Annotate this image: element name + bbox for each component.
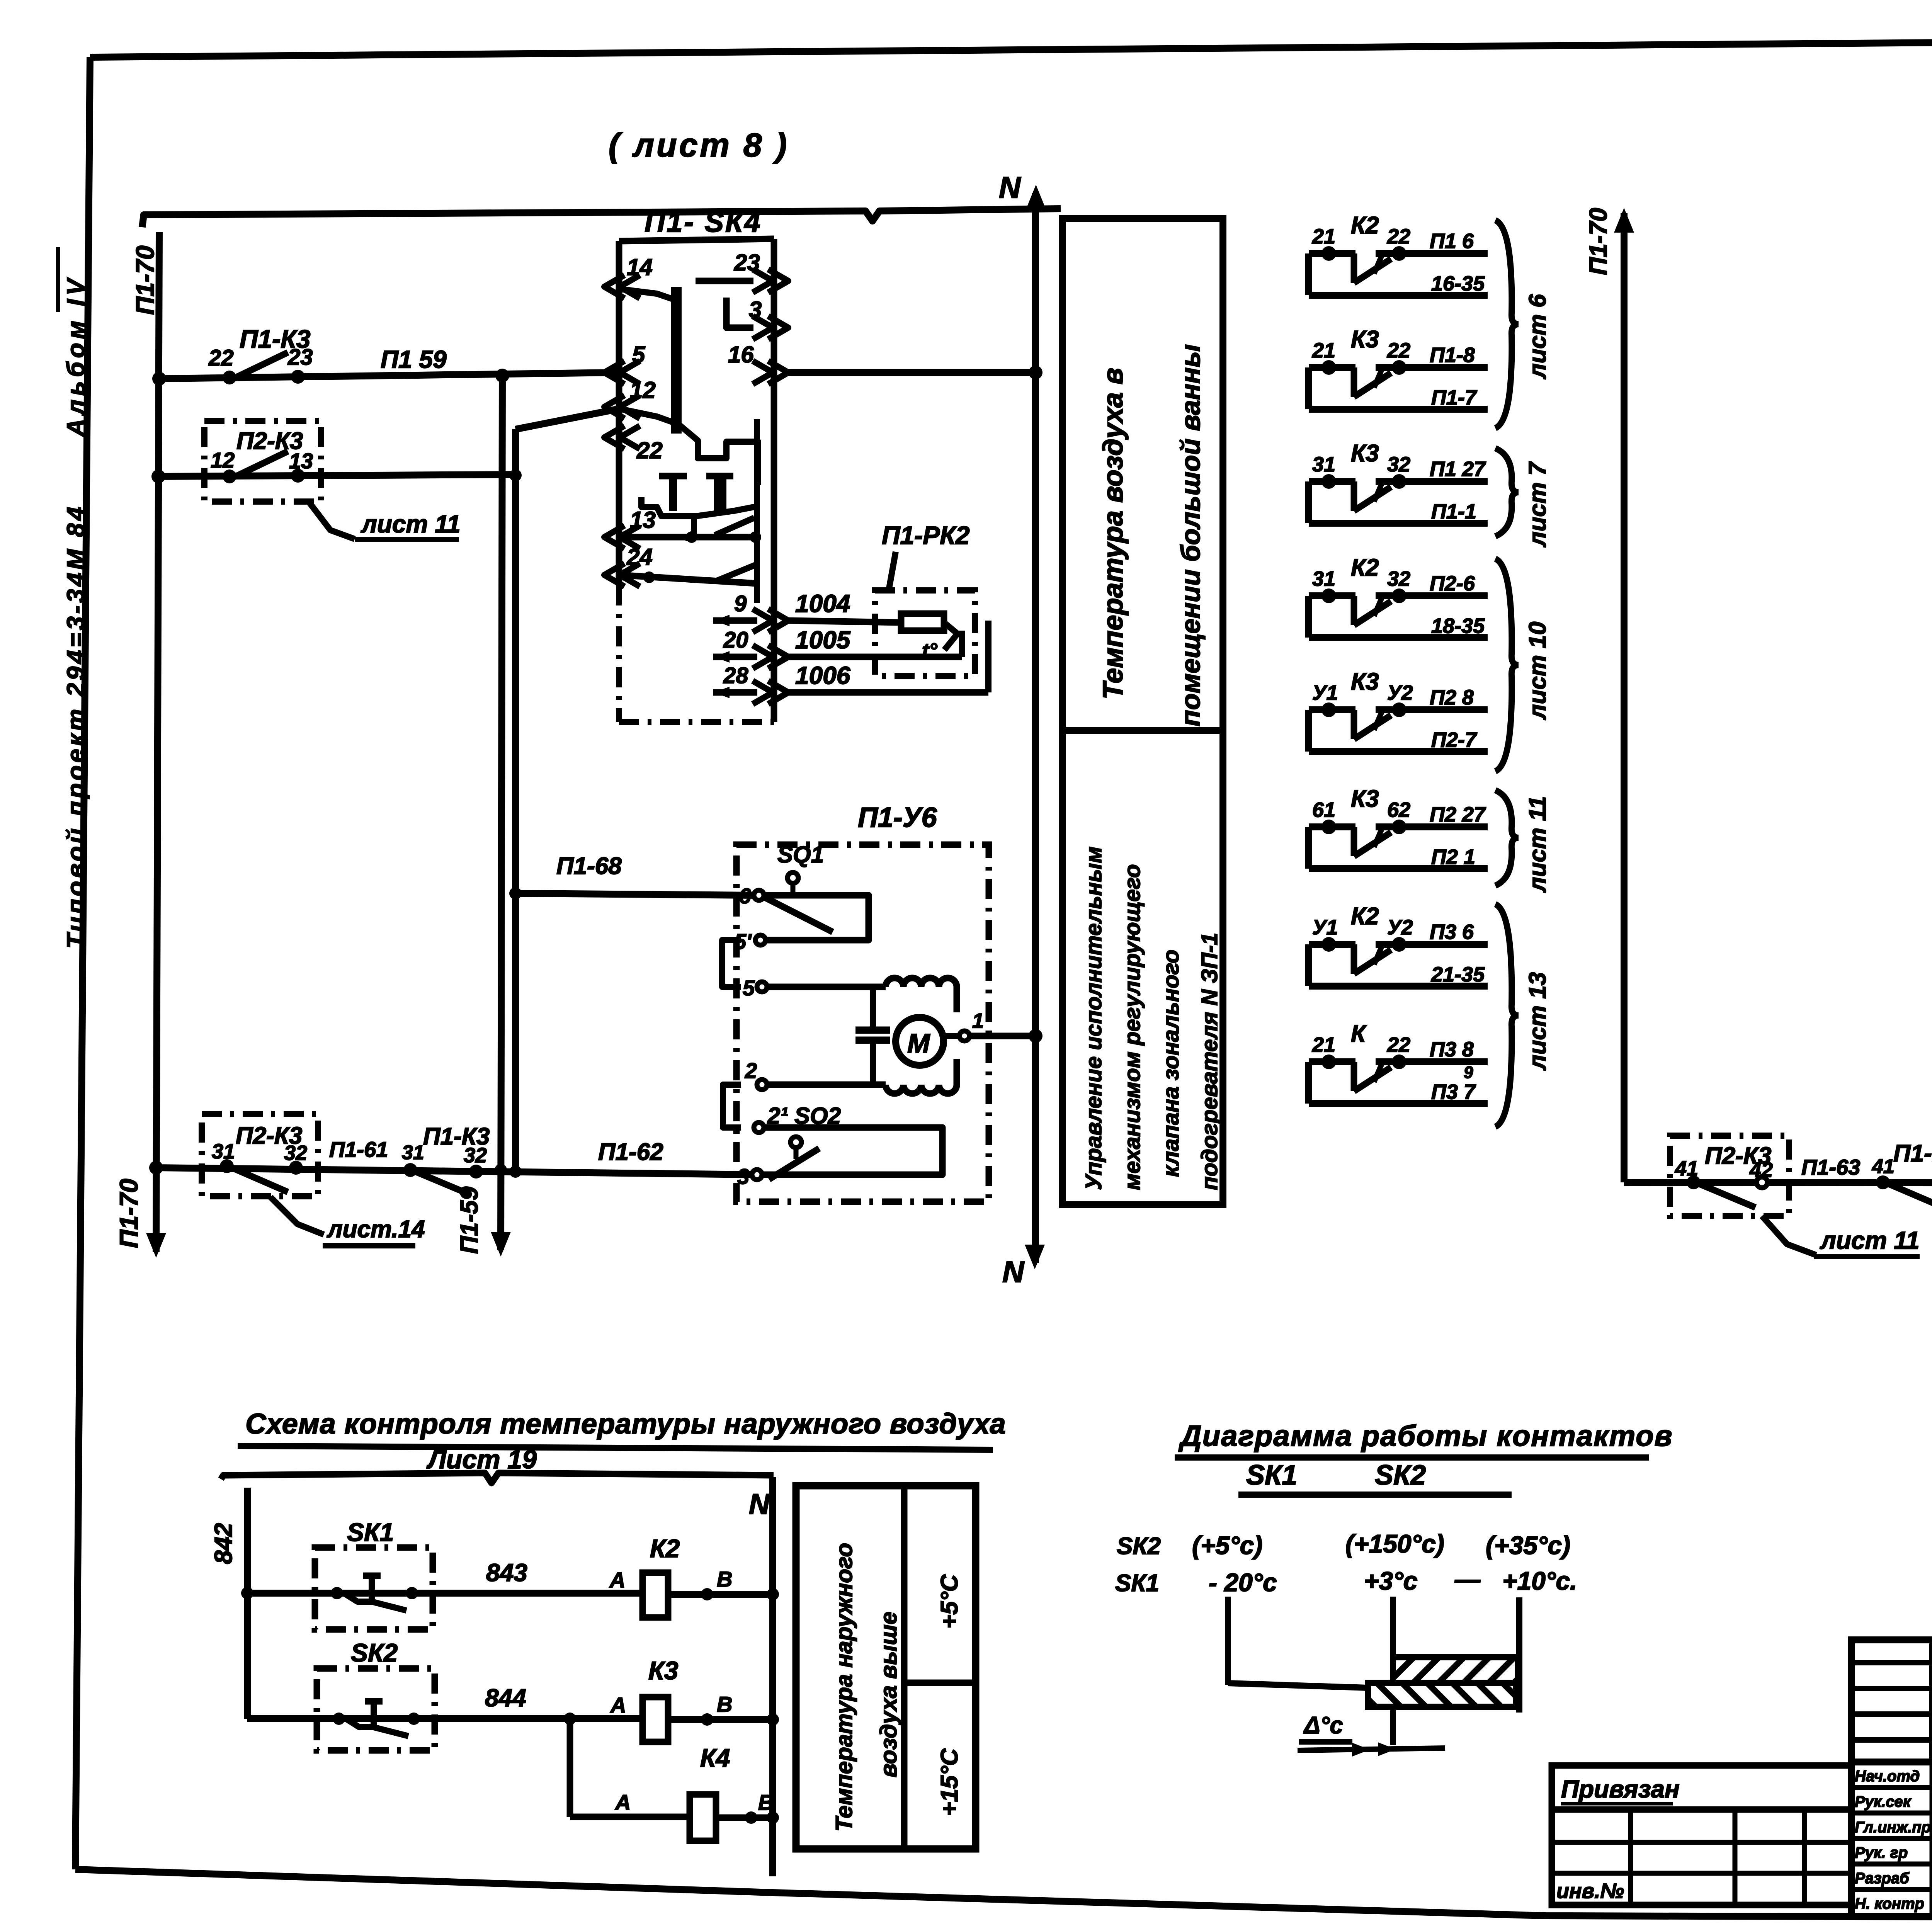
svg-text:К2: К2 xyxy=(650,1534,680,1563)
svg-text:П1-62: П1-62 xyxy=(598,1139,663,1165)
svg-text:SК1: SК1 xyxy=(1246,1460,1297,1491)
svg-text:32: 32 xyxy=(284,1141,307,1165)
auxiliary contact К (21-22) net П3 8/П3 7 xyxy=(1309,1058,1355,1065)
sheet bracket лист 7 xyxy=(1495,448,1519,536)
svg-text:П1-68: П1-68 xyxy=(556,853,622,879)
title block outline bottom xyxy=(1552,1902,1852,1908)
svg-text:К3: К3 xyxy=(1351,440,1379,467)
title block: lower-left grid xyxy=(1552,1810,1852,1905)
svg-text:П1-70: П1-70 xyxy=(114,1179,143,1248)
svg-text:21-35: 21-35 xyxy=(1431,963,1485,986)
svg-text:22: 22 xyxy=(1387,339,1410,362)
svg-text:В: В xyxy=(717,1567,732,1591)
svg-text:Схема контроля температуры нар: Схема контроля температуры наружного воз… xyxy=(245,1408,1006,1440)
svg-text:41: 41 xyxy=(1675,1157,1698,1180)
wire bottom row П1-63 / П1-65 xyxy=(1624,1182,1932,1183)
svg-text:П1-70: П1-70 xyxy=(1584,208,1612,275)
rail 842 xyxy=(244,1488,251,1719)
note лист 11 (right) leader xyxy=(1762,1216,1816,1255)
svg-text:помещении большой ванны: помещении большой ванны xyxy=(1175,344,1206,726)
svg-text:П1 6: П1 6 xyxy=(1430,230,1474,253)
svg-text:П1-РК2: П1-РК2 xyxy=(882,521,970,549)
svg-text:1005: 1005 xyxy=(795,626,851,654)
pin 3 xyxy=(768,316,788,339)
svg-text:22: 22 xyxy=(636,437,663,463)
capacitor xyxy=(870,987,876,1027)
terminal 2 wire xyxy=(757,1080,767,1090)
SQ1 bypass loop xyxy=(764,895,869,940)
svg-text:У1: У1 xyxy=(1312,916,1338,939)
junction on П1-70 xyxy=(152,372,166,386)
SQ2 bypass loop xyxy=(762,1128,942,1175)
svg-text:t°: t° xyxy=(922,639,937,662)
svg-text:31: 31 xyxy=(1312,567,1335,590)
svg-text:П1 59: П1 59 xyxy=(381,345,447,373)
svg-text:SК2: SК2 xyxy=(1117,1533,1161,1560)
condition box: Температура наружного воздуха выше xyxy=(796,1486,976,1849)
svg-text:П2 27: П2 27 xyxy=(1430,803,1486,826)
svg-text:20: 20 xyxy=(723,628,748,653)
border frame left xyxy=(75,57,90,1869)
svg-text:П1-7: П1-7 xyxy=(1431,386,1478,409)
title block: Привязан box xyxy=(1552,1765,1852,1810)
plug pin 28 / net 1006 xyxy=(713,689,757,696)
svg-text:21: 21 xyxy=(1312,225,1335,248)
svg-text:22: 22 xyxy=(1387,1033,1410,1056)
svg-text:+10°с.: +10°с. xyxy=(1502,1566,1577,1595)
motor M xyxy=(896,1017,944,1065)
svg-text:62: 62 xyxy=(1387,798,1410,821)
branch SК1 / К2 (843) xyxy=(247,1590,643,1597)
svg-text:2: 2 xyxy=(745,1058,757,1083)
svg-text:12: 12 xyxy=(211,448,235,472)
svg-text:842: 842 xyxy=(209,1523,237,1564)
svg-text:31: 31 xyxy=(212,1140,235,1163)
svg-text:Δ°с: Δ°с xyxy=(1303,1712,1343,1739)
svg-text:1006: 1006 xyxy=(795,662,850,689)
svg-text:П1-61: П1-61 xyxy=(329,1137,388,1162)
plug pin 20 / net 1005 xyxy=(713,654,757,660)
branch SК2 / К3 (844) xyxy=(247,1715,643,1722)
pin 23 wire xyxy=(696,278,753,284)
sheet bracket лист 10 xyxy=(1495,559,1519,771)
svg-text:22: 22 xyxy=(208,345,234,371)
svg-text:А: А xyxy=(614,1790,631,1815)
svg-text:П2 8: П2 8 xyxy=(1430,686,1474,709)
svg-text:У1: У1 xyxy=(1312,681,1338,704)
note лист 14 leader xyxy=(270,1197,324,1235)
title block: signature rows xyxy=(1852,1762,1932,1917)
pin 5 xyxy=(604,361,624,384)
svg-text:Температура воздуха в: Температура воздуха в xyxy=(1098,368,1129,699)
svg-text:Рук. гр: Рук. гр xyxy=(1855,1844,1908,1861)
svg-text:12: 12 xyxy=(630,377,656,403)
svg-text:лист 11: лист 11 xyxy=(361,510,461,538)
auxiliary contact К2 (21-22) net П1 6/16-35 xyxy=(1309,250,1355,257)
svg-text:Альбом IV: Альбом IV xyxy=(62,275,90,437)
svg-text:1: 1 xyxy=(972,1009,984,1032)
pin 24 xyxy=(604,563,624,587)
terminal bracket 2-21 xyxy=(723,1085,741,1128)
resistor П1-РК2 enclosure xyxy=(875,590,975,676)
svg-text:К2: К2 xyxy=(1351,212,1379,239)
auxiliary contact К3 (У1-У2) net П2 8/П2-7 xyxy=(1309,706,1355,713)
svg-text:32: 32 xyxy=(1387,453,1410,476)
auxiliary contact К3 (61-62) net П2 27/П2 1 xyxy=(1309,823,1355,830)
svg-text:SК1: SК1 xyxy=(1115,1570,1159,1597)
svg-text:П1-8: П1-8 xyxy=(1430,344,1475,367)
svg-text:лист.14: лист.14 xyxy=(327,1216,425,1243)
wire row П2-К3 (лист 11) xyxy=(158,474,515,476)
net 1006 wire xyxy=(788,689,988,696)
border frame bottom xyxy=(75,1869,1932,1922)
svg-text:Температура наружного: Температура наружного xyxy=(831,1543,857,1832)
svg-text:SК2: SК2 xyxy=(351,1638,398,1667)
svg-text:14: 14 xyxy=(627,254,653,280)
continuation bracket (лист 8) top line xyxy=(142,209,1061,227)
svg-text:У2: У2 xyxy=(1387,681,1413,704)
svg-text:42: 42 xyxy=(1749,1158,1773,1182)
terminal 1 of motor xyxy=(944,1033,960,1039)
note box: Управление исполнительным механизмом ЗП-1 xyxy=(1063,730,1223,1205)
svg-text:П2-7: П2-7 xyxy=(1431,728,1478,752)
pin 12 xyxy=(604,395,624,418)
svg-text:31: 31 xyxy=(1312,453,1335,476)
svg-text:К2: К2 xyxy=(1351,903,1379,930)
wire П1-68 xyxy=(509,887,522,900)
svg-text:П3 6: П3 6 xyxy=(1430,920,1474,944)
svg-text:лист 6: лист 6 xyxy=(1524,294,1551,379)
svg-text:К3: К3 xyxy=(648,1656,678,1685)
svg-text:К3: К3 xyxy=(1351,326,1379,353)
svg-text:лист 7: лист 7 xyxy=(1524,461,1551,548)
svg-text:5: 5 xyxy=(632,342,646,367)
SК4 internal bridge xyxy=(671,287,677,434)
svg-text:3: 3 xyxy=(737,1164,749,1189)
contact П1-К3 (22-23) xyxy=(223,371,236,384)
svg-text:22: 22 xyxy=(1387,225,1410,248)
svg-text:18-35: 18-35 xyxy=(1431,614,1485,638)
border frame top xyxy=(90,37,1932,57)
auxiliary contact К2 (У1-У2) net П3 6/21-35 xyxy=(1309,941,1355,948)
svg-text:6: 6 xyxy=(739,884,751,908)
rail П1-70 (left) xyxy=(156,232,159,1252)
svg-text:13: 13 xyxy=(289,449,313,473)
pin 13 xyxy=(604,526,624,549)
svg-text:П2-6: П2-6 xyxy=(1430,572,1475,595)
svg-text:+3°с: +3°с xyxy=(1364,1566,1417,1595)
svg-text:механизмом регулирующего: механизмом регулирующего xyxy=(1120,864,1145,1190)
svg-text:А: А xyxy=(609,1568,625,1592)
net 1005 wire xyxy=(788,654,962,660)
svg-text:16-35: 16-35 xyxy=(1431,272,1485,295)
svg-text:П1-1: П1-1 xyxy=(1431,500,1476,523)
svg-text:лист 11: лист 11 xyxy=(1820,1226,1920,1254)
svg-text:П2 1: П2 1 xyxy=(1431,845,1475,869)
svg-text:9: 9 xyxy=(734,591,747,616)
note лист 11 leader xyxy=(309,502,355,539)
junction dot to П1-59 drop xyxy=(495,369,509,383)
svg-text:К3: К3 xyxy=(1351,786,1379,812)
hatched band SК1 xyxy=(1368,1683,1516,1707)
SК4 internal lower outline xyxy=(641,497,758,516)
junction dots on bottom row xyxy=(495,1164,507,1176)
svg-text:П3 8: П3 8 xyxy=(1430,1038,1474,1061)
svg-text:32: 32 xyxy=(1387,567,1410,590)
svg-text:843: 843 xyxy=(486,1559,527,1587)
svg-text:(+5°с): (+5°с) xyxy=(1192,1531,1262,1560)
svg-text:лист 11: лист 11 xyxy=(1524,796,1551,893)
pin 3 wire xyxy=(726,298,753,328)
svg-text:23: 23 xyxy=(287,345,313,370)
SК4 internal T contact 2 xyxy=(706,473,733,480)
svg-text:—: — xyxy=(1454,1565,1481,1594)
svg-text:(+150°с): (+150°с) xyxy=(1345,1529,1444,1558)
diagram verticals xyxy=(1225,1597,1231,1685)
svg-text:41: 41 xyxy=(1872,1155,1895,1178)
motor winding upper xyxy=(886,978,957,987)
svg-text:инв.№: инв.№ xyxy=(1556,1879,1624,1903)
diagram link line xyxy=(1228,1683,1368,1688)
svg-text:Разраб: Разраб xyxy=(1855,1870,1910,1887)
svg-text:21: 21 xyxy=(1312,339,1335,362)
svg-text:П1 27: П1 27 xyxy=(1430,457,1486,481)
svg-text:- 20°с: - 20°с xyxy=(1209,1568,1277,1597)
SК4 internal staircase xyxy=(620,409,758,485)
svg-text:9: 9 xyxy=(1464,1063,1473,1082)
svg-text:П3 7: П3 7 xyxy=(1431,1080,1476,1104)
svg-text:13: 13 xyxy=(630,507,656,533)
pin 16 xyxy=(768,361,788,384)
contact П2-К3 (41-42) right xyxy=(1670,1136,1789,1216)
pin 22 xyxy=(604,426,624,449)
terminal 5 wire to winding xyxy=(757,982,767,992)
svg-text:воздуха выше: воздуха выше xyxy=(876,1612,901,1777)
svg-text:N: N xyxy=(999,170,1021,204)
node N (left circuit, bottom) xyxy=(1025,1245,1045,1269)
svg-text:У2: У2 xyxy=(1387,916,1413,939)
svg-text:Типовой проект 294=3-34М 84: Типовой проект 294=3-34М 84 xyxy=(62,504,90,949)
SК4 internal contact row 24 xyxy=(619,575,757,583)
motor winding lower xyxy=(886,1085,957,1094)
svg-text:подогревателя N ЗП-1: подогревателя N ЗП-1 xyxy=(1197,933,1222,1190)
auxiliary contact К3 (31-32) net П1 27/П1-1 xyxy=(1309,478,1355,485)
svg-text:3: 3 xyxy=(749,297,762,323)
plug pin 9 / net 1004 xyxy=(713,617,757,624)
contact П2-К3 (31-32) bottom left xyxy=(202,1114,318,1196)
svg-text:SК1: SК1 xyxy=(347,1518,394,1546)
svg-text:SК2: SК2 xyxy=(1375,1460,1426,1491)
pin 14 xyxy=(604,275,624,298)
svg-text:П1-У6: П1-У6 xyxy=(858,802,937,833)
vertical link wire to SК4 12/22 xyxy=(512,429,519,1172)
svg-text:В: В xyxy=(758,1790,774,1815)
rail П1-70 (right) xyxy=(1621,213,1628,1182)
svg-text:Рук.сек: Рук.сек xyxy=(1855,1793,1912,1810)
svg-text:Диаграмма работы контактов: Диаграмма работы контактов xyxy=(1178,1420,1673,1452)
svg-text:61: 61 xyxy=(1312,798,1335,821)
wire pin16 to N rail xyxy=(788,369,1036,376)
enclosure П2-К3 dash-dot box xyxy=(204,421,321,502)
svg-text:Н. контр: Н. контр xyxy=(1855,1895,1924,1912)
svg-text:23: 23 xyxy=(734,250,760,276)
thermal switch SК1 xyxy=(315,1548,433,1629)
note box: Температура воздуха в помещении большой ванны xyxy=(1063,218,1223,730)
svg-text:К3: К3 xyxy=(1351,668,1379,695)
svg-text:+15°С: +15°С xyxy=(936,1748,963,1816)
sensor t xyxy=(944,622,957,650)
svg-text:П1-К3: П1-К3 xyxy=(1893,1140,1932,1167)
svg-text:844: 844 xyxy=(485,1684,526,1712)
SК4 internal contact row 13 xyxy=(619,534,757,541)
svg-text:24: 24 xyxy=(626,544,653,570)
svg-text:П1-63: П1-63 xyxy=(1801,1155,1860,1179)
svg-text:Управление исполнительным: Управление исполнительным xyxy=(1081,847,1106,1190)
svg-text:32: 32 xyxy=(464,1144,487,1167)
SК4 internal T contact 1 xyxy=(659,473,687,480)
terminal bracket 5'-5 xyxy=(722,940,741,987)
svg-text:А: А xyxy=(610,1693,626,1717)
svg-text:Нач.отд: Нач.отд xyxy=(1855,1768,1920,1785)
svg-text:21: 21 xyxy=(1312,1033,1335,1056)
svg-text:16: 16 xyxy=(728,342,754,367)
svg-text:5: 5 xyxy=(743,976,755,1000)
svg-text:31: 31 xyxy=(402,1141,424,1164)
sheet bracket лист 11 xyxy=(1495,790,1519,886)
vertical net П1-59 (left) xyxy=(501,376,502,1250)
svg-text:N: N xyxy=(749,1488,770,1520)
svg-text:+5°С: +5°С xyxy=(936,1574,963,1629)
svg-text:лист 10: лист 10 xyxy=(1524,622,1551,720)
svg-text:Привязан: Привязан xyxy=(1561,1775,1680,1803)
svg-text:М: М xyxy=(907,1028,930,1058)
auxiliary contact К2 (31-32) net П2-6/18-35 xyxy=(1309,592,1355,599)
pin 23 xyxy=(768,269,788,293)
svg-text:К2: К2 xyxy=(1351,554,1379,581)
sheet bracket лист 13 xyxy=(1495,904,1519,1127)
branch К4 xyxy=(564,1713,576,1725)
auxiliary contact К3 (21-22) net П1-8/П1-7 xyxy=(1309,364,1355,371)
contact П2-К3 (12-13) xyxy=(223,469,236,483)
svg-text:П1-70: П1-70 xyxy=(131,245,159,315)
sheet bracket лист 6 xyxy=(1495,220,1519,428)
thermal switch SК2 xyxy=(317,1668,435,1750)
svg-text:SQ1: SQ1 xyxy=(777,842,824,867)
svg-text:1004: 1004 xyxy=(795,590,850,617)
svg-text:(+35°с): (+35°с) xyxy=(1486,1531,1570,1560)
actuator block П1-У6 enclosure xyxy=(736,845,989,1202)
svg-text:лист 13: лист 13 xyxy=(1524,972,1551,1071)
svg-text:клапана зонального: клапана зонального xyxy=(1158,950,1184,1177)
svg-text:К: К xyxy=(1351,1020,1367,1047)
svg-text:В: В xyxy=(717,1692,732,1716)
wire row П159 xyxy=(159,372,619,379)
svg-text:( лист 8 ): ( лист 8 ) xyxy=(609,127,789,164)
wire bottom row П1-61 / П1-62 xyxy=(156,1168,757,1175)
resistor body xyxy=(901,614,944,631)
title block: signature grid upper xyxy=(1852,1640,1932,1762)
resistor loop wires xyxy=(959,631,965,657)
svg-text:Гл.инж.пр: Гл.инж.пр xyxy=(1855,1819,1931,1836)
svg-text:К4: К4 xyxy=(700,1743,730,1772)
svg-text:N: N xyxy=(1002,1255,1025,1289)
svg-text:28: 28 xyxy=(723,663,748,688)
svg-text:П1- SК4: П1- SК4 xyxy=(645,206,762,238)
net 1004 wire xyxy=(788,621,901,622)
